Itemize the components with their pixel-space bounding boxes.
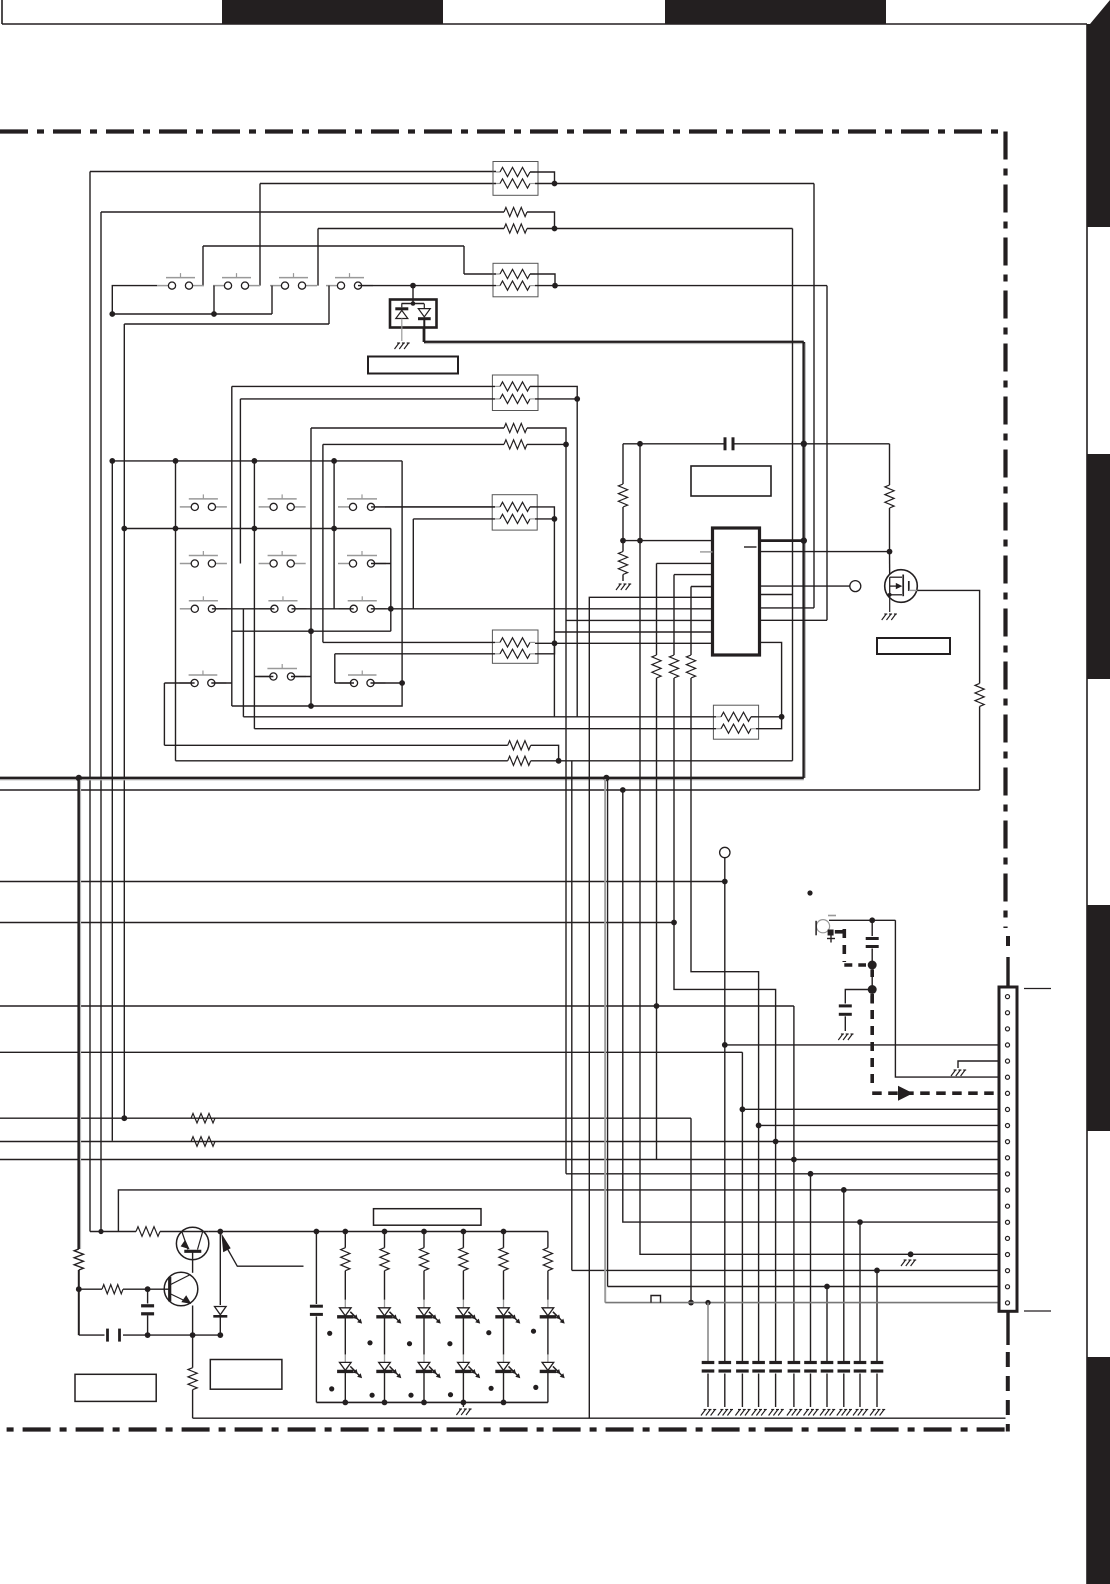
resistor pack R7 box: [492, 630, 538, 663]
wire rowD S3 right tail: [371, 682, 403, 684]
resistor R1a: [496, 167, 535, 176]
wire led cap col: [315, 1232, 317, 1305]
wire diode branch: [219, 1232, 221, 1306]
ground Cb10: [853, 1410, 868, 1416]
node gate col: [887, 549, 893, 555]
wire box5 lower input: [254, 728, 716, 730]
capacitor Cb5: [769, 1363, 782, 1372]
led LED4a: [455, 1300, 480, 1324]
wire divider top: [622, 444, 624, 484]
wire col x827: [826, 286, 828, 621]
ground pin17: [901, 1260, 916, 1266]
node led bottom 1: [342, 1400, 348, 1406]
wire cap C2 branch: [871, 920, 873, 936]
wire R9 lower input: [176, 760, 508, 762]
transistor Q2 internals: [170, 1275, 192, 1304]
resistor R13: [669, 655, 678, 678]
wire divider bottom: [622, 575, 624, 582]
label box q2: [210, 1360, 282, 1390]
wire pp2 lower input: [323, 443, 504, 445]
wire col x708 gray: [707, 1303, 709, 1362]
wire R3 out to col: [555, 285, 827, 287]
node col827 pin19 tap: [824, 1284, 830, 1290]
switch S3: [270, 273, 317, 289]
wire col x554: [553, 519, 555, 717]
wire col x758: [758, 1125, 760, 1361]
wire col x877: [876, 1270, 878, 1361]
wire led gnd stub: [462, 1402, 464, 1407]
node x622 tap: [620, 787, 626, 793]
ground diode pack: [395, 343, 410, 349]
wire gate col upper: [889, 444, 891, 485]
wire rowD S1 right tail: [211, 682, 232, 684]
node busB 3: [252, 526, 258, 532]
resistor R10: [618, 484, 627, 507]
node supply 640: [637, 441, 643, 447]
capacitor Cb4: [752, 1363, 765, 1372]
wire IC to gate col: [760, 551, 890, 553]
callout arrow: [221, 1233, 303, 1266]
resistor R5a: [504, 423, 527, 432]
led LED2b: [376, 1354, 401, 1378]
node led col 2: [382, 1229, 388, 1235]
node led bottom 2: [382, 1400, 388, 1406]
wire col x827 low: [826, 1287, 828, 1362]
wire col x674 lower: [674, 678, 776, 1142]
resistor R15: [885, 485, 894, 508]
ground Cb5: [769, 1410, 784, 1416]
resistor pack R6 box: [492, 495, 537, 530]
wire R8 to IC pin: [760, 642, 782, 716]
wire V x318 SW3 up: [317, 229, 319, 286]
ground Cb6: [787, 1410, 802, 1416]
label box mosfet: [877, 638, 950, 654]
wire gate col lower: [889, 508, 891, 577]
bold dashed mic lead: [835, 929, 866, 965]
wire w1052: [0, 1051, 742, 1053]
wire R9 out right: [559, 760, 793, 762]
resistor R1b: [496, 179, 535, 188]
wire col x742: [741, 1052, 743, 1361]
wire col x860: [859, 1222, 861, 1361]
node pin17 gnd: [908, 1251, 914, 1257]
led LED3a: [416, 1300, 441, 1324]
test point TP1: [850, 581, 861, 592]
wire R8 output join: [751, 717, 782, 729]
node bias end: [217, 1332, 223, 1338]
connector CN1 mate bottom: [1024, 1310, 1051, 1312]
node led dot 3: [407, 1341, 412, 1346]
wire mic col to pin6: [895, 920, 1000, 1077]
capacitor Cb9: [838, 1363, 851, 1372]
jumper bump: [651, 1296, 661, 1303]
wire w1006: [0, 1005, 794, 1007]
node R7 out: [552, 640, 558, 646]
transistor Q1 internals: [177, 1232, 209, 1252]
wire row-A top: [90, 171, 496, 173]
wire boxN lower input: [413, 518, 495, 520]
wire row-B top: [101, 211, 504, 213]
mosfet Q3 internals: [888, 575, 909, 597]
wire divider mid: [622, 507, 624, 552]
wire R3 output join: [530, 274, 555, 286]
page header rule: [2, 0, 1087, 24]
wire pin20 gray: [605, 778, 1000, 1303]
wire row1 return A: [112, 313, 272, 315]
wire V x329: [328, 286, 330, 324]
wire Cb7 lower: [810, 1374, 812, 1408]
wire w881: [0, 881, 725, 883]
resistor pack R3 box: [493, 263, 538, 297]
wire cap C4 branch: [147, 1289, 149, 1303]
ic U1 body: [713, 528, 760, 655]
node led col 5: [501, 1229, 507, 1235]
resistor R4a: [495, 382, 535, 391]
wire box4 lower input: [335, 653, 495, 655]
connector CN1 top stub: [1006, 936, 1010, 987]
wire col x691 lower: [691, 678, 759, 1125]
switch S14: [180, 671, 227, 687]
node led dot 7: [329, 1386, 334, 1391]
diode pack D1 box: [390, 300, 437, 328]
node bold supply tap: [801, 441, 807, 447]
wire pin18: [572, 1269, 1000, 1271]
switch S12: [259, 596, 306, 612]
bus B: [124, 528, 391, 530]
node R8 out: [779, 714, 785, 720]
ground Cb1: [701, 1410, 716, 1416]
resistor R16: [975, 683, 984, 706]
led LED6a: [540, 1300, 565, 1324]
resistor pack R4 box: [492, 375, 538, 411]
test point TP2: [720, 847, 730, 857]
switch S8: [180, 551, 227, 567]
wire col x640: [640, 444, 1000, 1255]
connector CN1 mate top: [1024, 988, 1051, 990]
wire col x674 upper: [673, 575, 675, 655]
wire V x272: [271, 286, 273, 314]
wire loop pin13: [118, 1190, 1000, 1232]
resistor Rled5: [499, 1232, 508, 1300]
resistor Rled3: [419, 1232, 428, 1300]
wire mic top: [829, 919, 895, 921]
node row1 A2: [211, 311, 217, 317]
led rail bottom: [316, 1401, 548, 1403]
bold col x78 lower: [78, 1270, 80, 1289]
wire bus V x124: [123, 324, 125, 1118]
resistor R6a: [495, 502, 535, 511]
wire q1 base row: [90, 1231, 136, 1233]
wire x554 stub to IC: [554, 631, 712, 633]
wire col x656 lower: [656, 678, 658, 1160]
diode D1b: [418, 304, 431, 328]
ground C3: [838, 1034, 853, 1040]
wire V x112 lower: [111, 461, 113, 1141]
wire mosfet source: [889, 595, 891, 612]
node q2 base mid: [145, 1286, 151, 1292]
wire rowD S1 left tail: [164, 682, 194, 684]
ground Cb3: [735, 1410, 750, 1416]
wire rowC chain: [212, 608, 275, 610]
node bold rail left: [76, 775, 82, 781]
wire bias rail: [79, 1334, 221, 1336]
wire col x335: [334, 654, 336, 683]
wire divider to IC: [623, 540, 713, 542]
node q2 emitter join: [190, 1332, 196, 1338]
wire R1 out to col: [555, 183, 815, 185]
wire led col 1 mid: [344, 1319, 346, 1355]
wire C3 lower: [844, 1016, 846, 1031]
wire dashB left: [845, 990, 872, 1004]
node rowC common: [308, 628, 314, 634]
capacitor C5: [108, 1329, 120, 1342]
label box led: [374, 1209, 482, 1226]
wire Cb1 lower: [707, 1374, 709, 1408]
switch S1: [157, 273, 204, 289]
node busA 1: [109, 458, 115, 464]
ic U1 pin1 mark: [744, 546, 757, 548]
wire V x203 SW1 up: [202, 246, 204, 286]
wire col x254: [253, 461, 255, 729]
node led dot 11: [489, 1386, 494, 1391]
switch S2: [213, 273, 260, 289]
wire pin4: [725, 1044, 1000, 1046]
wire box4 upper input: [323, 641, 495, 643]
node pin9 tap: [756, 1123, 762, 1129]
bold dashed to pin7: [872, 994, 1000, 1093]
node x101 end: [98, 1229, 103, 1234]
node led col 1: [342, 1229, 348, 1235]
node x656 end: [654, 1003, 660, 1009]
node pin10 tap: [773, 1139, 779, 1145]
wire bottom run to connector: [193, 1417, 1006, 1419]
wire q2 emitter tail: [192, 1335, 194, 1368]
sidebar tab 3: [1087, 905, 1110, 1131]
node busB 1: [121, 526, 127, 532]
node led dot 1: [327, 1331, 332, 1336]
wire col x571: [571, 761, 573, 1271]
node led dot 10: [448, 1392, 453, 1397]
wire IC pin to col x674: [674, 574, 713, 576]
wire S7 right to boxN: [371, 506, 495, 508]
wire q1 to q2: [192, 1251, 194, 1273]
wire q1 out: [209, 1231, 317, 1233]
bold col x78 upper: [79, 778, 81, 1249]
wire rowC common: [232, 630, 391, 632]
wire supply row: [623, 443, 890, 445]
resistor Rled4: [459, 1232, 468, 1300]
node busB 4: [331, 526, 337, 532]
bus A: [112, 460, 402, 462]
wire w1118 drop: [690, 1118, 692, 1302]
bold wire bottom rail: [0, 778, 804, 780]
ground Cb7: [804, 1410, 819, 1416]
node R6 out: [552, 516, 558, 522]
switch S7: [338, 494, 386, 510]
wire col x691 upper: [690, 587, 692, 656]
resistor R8a: [716, 712, 756, 721]
node pin15 tap: [857, 1219, 863, 1225]
resistor R12: [652, 655, 661, 678]
resistor R3a: [496, 269, 535, 278]
node led cap col: [314, 1229, 320, 1235]
node led bottom 4: [461, 1400, 467, 1406]
wire col x240: [239, 399, 241, 564]
node rowD common: [308, 703, 314, 709]
capacitor Cb8: [821, 1363, 834, 1372]
wire col x814: [813, 184, 815, 608]
resistor R21: [102, 1285, 123, 1294]
ground led: [456, 1409, 471, 1415]
wire col x334: [333, 461, 335, 609]
wire rowD S2 left tail: [254, 676, 273, 678]
led LED1a: [337, 1300, 362, 1324]
wire led col 6 mid: [547, 1319, 549, 1355]
resistor R19: [74, 1249, 83, 1270]
bold col x78 tail: [78, 1289, 80, 1335]
node led dot 9: [408, 1393, 413, 1398]
resistor R7a: [495, 638, 535, 647]
wire led cap col lower: [315, 1316, 317, 1402]
resistor R2b: [504, 224, 527, 233]
resistor R9b: [508, 756, 531, 765]
wire IC pin stub x827: [760, 619, 828, 621]
wire S10 right tail: [371, 563, 391, 565]
node R5 out: [563, 442, 569, 448]
wire R2 out to col: [555, 228, 793, 230]
node C4 join: [145, 1332, 151, 1338]
wire col x311: [310, 428, 312, 706]
wire q1 base row b: [160, 1231, 177, 1233]
node q1 out: [217, 1229, 223, 1235]
capacitor Cb2: [719, 1363, 732, 1372]
node dash A: [868, 961, 877, 970]
wire busA drop right: [232, 461, 402, 706]
capacitor Cb6: [788, 1363, 801, 1372]
wire led col 2 mid: [384, 1319, 386, 1355]
node led bottom 3: [421, 1400, 427, 1406]
dash-dot border right upper: [1003, 132, 1007, 929]
ground Cb8: [820, 1410, 835, 1416]
node R1 out: [552, 181, 558, 187]
diode D2: [213, 1307, 227, 1336]
led LED6b: [540, 1354, 565, 1378]
node pin12 tap: [808, 1171, 814, 1177]
capacitor C6: [310, 1306, 323, 1314]
wire pin8: [742, 1108, 1000, 1110]
wire row1 return B: [124, 323, 329, 325]
node pin18 tap: [874, 1268, 880, 1274]
ground Cb2: [718, 1410, 733, 1416]
wire V x464 down to box2: [463, 246, 465, 274]
node w1118 x124: [121, 1115, 127, 1121]
wire w922: [0, 922, 674, 924]
wire IC pin to col x691: [691, 586, 713, 588]
wire col x323: [322, 444, 324, 642]
wire led col 3 mid: [423, 1319, 425, 1355]
resistor R2a: [504, 207, 527, 216]
wire IC pin x589: [589, 597, 712, 1418]
wire led col 5 bottom: [503, 1373, 505, 1402]
resistor R9a: [508, 741, 531, 750]
wire led col 2 bottom: [384, 1373, 386, 1402]
node led dot 6: [531, 1329, 536, 1334]
wire R1 output join: [530, 172, 555, 184]
wire V x260 SW2 up: [259, 184, 261, 286]
wire Cb10 lower: [859, 1374, 861, 1408]
node divider tap: [620, 538, 626, 544]
node R3 out: [552, 283, 558, 289]
wire bus V x101: [100, 212, 102, 1232]
resistor R20: [136, 1227, 160, 1237]
wire R7 out to IC: [555, 642, 713, 644]
led LED2a: [376, 1300, 401, 1324]
wire R2 output join: [527, 212, 555, 229]
node led dot 8: [370, 1393, 375, 1398]
wire S4 to diode node: [358, 285, 496, 287]
bold wire diode to right: [424, 328, 804, 344]
wire drain row: [0, 789, 980, 791]
resistor Rled1: [341, 1232, 350, 1300]
sidebar tab 4: [1087, 1357, 1110, 1584]
wire led col 4 mid: [462, 1319, 464, 1355]
wire IC pin stub x792: [760, 594, 793, 596]
node diode top: [410, 283, 416, 289]
node R2 out: [552, 226, 558, 232]
resistor R22: [188, 1368, 197, 1390]
wire col x243: [242, 609, 244, 717]
resistor R7b: [495, 649, 535, 658]
node x640 pin: [637, 538, 643, 544]
dash-dot border bottom: [0, 1427, 1005, 1431]
resistor Rled2: [380, 1232, 389, 1300]
wire box1 lower input: [260, 183, 496, 185]
resistor pack R1 box: [493, 162, 538, 196]
wire col x413: [412, 519, 414, 609]
switch S15: [258, 664, 306, 680]
resistor pack R8 box: [713, 705, 758, 739]
connector CN1 body: [999, 987, 1017, 1311]
wire col x792: [792, 229, 794, 761]
wire Cb5 lower: [775, 1374, 777, 1408]
resistor R3b: [496, 281, 535, 290]
switch S9: [259, 551, 306, 567]
wire Cb6 lower: [793, 1374, 795, 1408]
wire led col 4 bottom: [462, 1373, 464, 1402]
node q2 base rail: [76, 1286, 82, 1292]
wire rowC S2-S3 link: [292, 608, 354, 610]
wire Cb3 lower: [741, 1374, 743, 1408]
node R9 out: [556, 758, 562, 764]
wire pp2 upper input: [311, 427, 504, 429]
resistor R18: [191, 1137, 215, 1147]
resistor R17: [191, 1113, 215, 1123]
mic plus mark: [827, 935, 835, 943]
wire IC pin to col x656: [657, 562, 713, 564]
wire col x622: [623, 790, 1000, 1222]
wire rowD S2 right tail: [291, 676, 311, 678]
wire Cb11 lower: [876, 1374, 878, 1408]
led LED3b: [416, 1354, 441, 1378]
wire box3 upper input: [232, 385, 495, 387]
wire into diode pack: [402, 286, 425, 306]
ground divider: [616, 584, 631, 590]
node rowD S3 right: [399, 680, 405, 686]
wire R9 output join: [531, 745, 559, 761]
label box above IC: [691, 466, 771, 496]
node bold rail mid: [603, 775, 609, 781]
sidebar tab 1: [1087, 0, 1110, 227]
